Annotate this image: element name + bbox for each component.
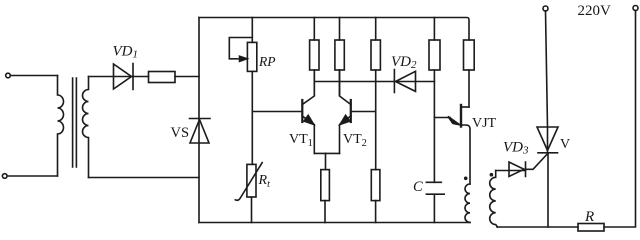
svg-text:VD3: VD3 [503, 140, 529, 157]
svg-text:VD1: VD1 [113, 44, 139, 61]
wire charging column to capacitor [433, 18, 435, 183]
svg-text:VJT: VJT [472, 116, 497, 131]
wire emitter node to emitter resistor [325, 153, 327, 169]
wire VT2 collector leads [339, 18, 341, 96]
wire VT1 collector to VD2 to UJT node [314, 81, 434, 83]
wire thyristor anode [546, 11, 548, 153]
svg-text:220V: 220V [578, 3, 612, 19]
wire series resistor to supply bus [175, 76, 199, 78]
terminal input top [6, 73, 11, 78]
wire secondary top to VD3 [496, 170, 526, 172]
wire divider bottom to rail [375, 201, 377, 223]
polarity dot secondary [490, 173, 494, 177]
transformer T core [73, 78, 77, 167]
terminal 220V right [633, 6, 638, 11]
wire VT1 collector leads [313, 18, 315, 96]
transformer T secondary winding [83, 77, 89, 178]
resistor (UJT base-2, unnamed) [464, 40, 475, 70]
svg-text:V: V [560, 137, 570, 152]
svg-text:C: C [413, 179, 423, 195]
svg-text:VT2: VT2 [343, 132, 367, 149]
polarity dot primary [464, 177, 468, 181]
wire Rt bottom lead to rail [251, 197, 253, 223]
resistor (divider bottom, unnamed) [371, 170, 380, 201]
wire divider column [375, 18, 377, 170]
wire thyristor cathode to rail [547, 153, 549, 227]
wire emitter junction bar [314, 152, 339, 154]
pulse transformer primary winding [465, 184, 470, 222]
wire bottom rail (control section) [199, 222, 470, 224]
wire RP top lead [251, 18, 253, 43]
transistor VT1 [301, 100, 303, 122]
wire base-2 resistor lead [468, 70, 470, 107]
thermistor Rt diagonal stroke [235, 163, 262, 201]
svg-text:Rt: Rt [258, 173, 271, 190]
wire input top [11, 75, 58, 77]
terminal 220V left [543, 6, 548, 11]
svg-text:VD2: VD2 [391, 54, 417, 71]
resistor (common emitter, unnamed) [321, 170, 330, 201]
resistor (VT1 collector, unnamed) [310, 40, 319, 70]
pulse transformer secondary winding [490, 171, 498, 228]
wire top supply rail [199, 18, 469, 41]
RP wiper arrowhead [240, 56, 248, 61]
wire gate to thyristor [526, 153, 549, 169]
transistor VJT (unijunction) [460, 105, 462, 127]
capacitor C [426, 182, 444, 222]
resistor (divider top, unnamed) [371, 40, 380, 70]
diode VD3 [509, 162, 526, 177]
svg-text:VT1: VT1 [289, 132, 313, 149]
zener diode VS [190, 119, 211, 144]
resistor (VT2 collector, unnamed) [335, 40, 344, 70]
wire VT1 base [252, 111, 301, 113]
wire VD1 cathode to series resistor [133, 76, 149, 78]
wire input bottom [7, 175, 58, 177]
svg-text:RP: RP [258, 54, 276, 69]
wire emitter resistor to rail [324, 201, 326, 223]
wire VT2 base [351, 111, 376, 113]
thermistor Rt [247, 164, 256, 197]
potentiometer RP [247, 42, 256, 71]
RP wiper [229, 38, 252, 59]
wire right drop to load [604, 11, 636, 228]
transformer T primary winding [58, 76, 64, 177]
wire left bus (node +V / common) [198, 18, 200, 223]
svg-text:VS: VS [171, 125, 190, 141]
wire RP bottom lead to Rt [251, 71, 253, 164]
diode VD2 [394, 70, 415, 93]
wire bottom right rail [497, 226, 578, 228]
load resistor R [578, 224, 604, 232]
wire secondary top to VD1 anode [89, 76, 134, 78]
wire secondary bottom to common bus [89, 177, 200, 179]
resistor (UJT charging, unnamed) [429, 40, 440, 70]
transistor VT2 [350, 100, 352, 122]
thyristor V [537, 127, 558, 153]
diode VD1 [114, 64, 134, 90]
resistor (series, unnamed) [149, 72, 176, 83]
terminal input bottom [2, 174, 7, 179]
svg-text:R: R [584, 209, 594, 225]
